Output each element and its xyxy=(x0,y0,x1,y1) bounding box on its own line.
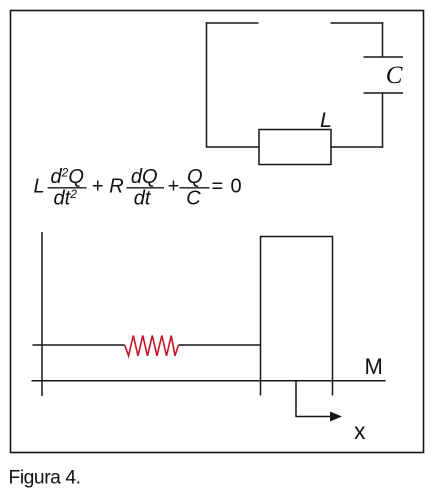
mass M (block) xyxy=(261,236,333,396)
inductor L (box symbol) xyxy=(259,130,331,165)
label C (capacitor value) xyxy=(386,62,403,89)
arrow x (displacement direction) xyxy=(295,381,342,422)
caption Figura 4. xyxy=(9,468,81,489)
svg-text:C: C xyxy=(386,62,403,89)
svg-text:Figura 4.: Figura 4. xyxy=(9,468,81,489)
label L (inductor) xyxy=(320,108,332,132)
svg-text:Q: Q xyxy=(187,166,203,188)
svg-text:x: x xyxy=(354,418,366,444)
svg-text:0: 0 xyxy=(231,176,242,198)
wire top-left segment (to open switch gap) xyxy=(206,22,259,24)
wire left vertical of circuit loop xyxy=(206,22,208,147)
wire bottom-left segment (inductor to left vertical) xyxy=(206,146,259,148)
svg-text:C: C xyxy=(186,188,201,210)
wire spring attachment line (wall stub) xyxy=(33,344,125,346)
wire right vertical upper (to capacitor) xyxy=(382,22,384,57)
svg-text:=: = xyxy=(212,176,224,198)
svg-text:M: M xyxy=(365,354,383,379)
svg-text:+: + xyxy=(92,176,104,198)
wall (fixed support, left vertical) xyxy=(41,232,43,396)
svg-text:dt: dt xyxy=(134,188,152,210)
label x (displacement) xyxy=(354,418,366,444)
svg-text:+: + xyxy=(168,176,180,198)
wire bottom-right segment (to inductor) xyxy=(331,146,383,148)
wire right vertical lower (capacitor to bottom) xyxy=(382,93,384,148)
svg-text:R: R xyxy=(109,176,123,198)
svg-text:dQ: dQ xyxy=(131,166,158,188)
wire spring to mass xyxy=(179,344,261,346)
equation L d2Q/dt2 + R dQ/dt + Q/C = 0 xyxy=(34,166,242,210)
label M (mass) xyxy=(365,354,383,379)
svg-text:L: L xyxy=(34,176,45,198)
ground line (surface) xyxy=(32,380,386,382)
spring (red zigzag) xyxy=(125,336,179,356)
wire top-right segment (from switch gap) xyxy=(331,22,384,24)
capacitor C plates xyxy=(364,57,404,93)
svg-text:L: L xyxy=(320,108,332,132)
